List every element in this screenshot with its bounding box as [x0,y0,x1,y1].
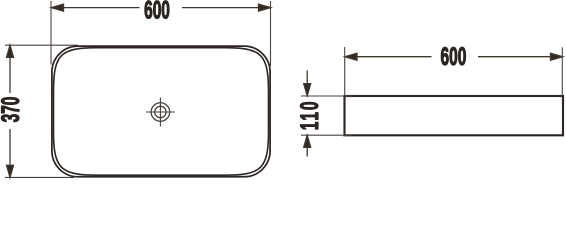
extension line top (110) [301,95,353,97]
dimension 110 (side view, vertical, arrows outside) [304,70,311,156]
label 600 (side view width) [440,43,466,71]
extension line left (600 top) [50,1,52,65]
svg-text:370: 370 [0,97,25,123]
extension line top (370) [5,44,78,46]
svg-text:600: 600 [440,43,466,71]
extension line right (600 top) [270,1,272,66]
svg-text:600: 600 [144,0,170,25]
side view rectangle [345,96,564,135]
svg-text:110: 110 [296,100,324,131]
label 370 (top view depth, rotated) [0,97,25,123]
dimension line 600 (top view, horizontal) [51,4,270,11]
basin inner outline (rim inner edge) [54,48,269,176]
extension line right (600 side) [561,47,563,96]
label 600 (top view width) [144,0,170,25]
dimension line 370 (top view, vertical) [7,45,14,177]
drain crosshair outer circle [151,103,170,122]
drain crosshair inner circle [155,106,166,117]
basin outer outline (top view rounded rectangle) [52,46,270,177]
extension line left (600 side) [344,47,346,96]
dimension line 600 (side view, horizontal) [345,53,563,60]
drain crosshair cross lines [146,98,175,127]
extension line bottom (110) [301,134,353,136]
label 110 (side view height, rotated) [296,100,324,131]
extension line bottom (370) [5,176,74,178]
